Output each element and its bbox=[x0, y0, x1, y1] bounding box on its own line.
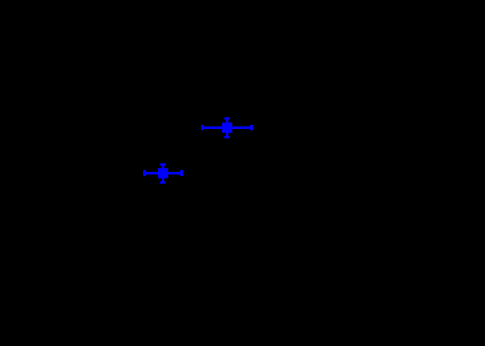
data point 1: square marker bbox=[222, 123, 232, 133]
data point 2: x error right cap bbox=[180, 170, 183, 176]
data point 1: x error bar line bbox=[202, 126, 253, 129]
data point 2: x error bar line bbox=[144, 172, 183, 175]
data point 2: y error bar stem bbox=[162, 164, 164, 184]
data point 1: x error left cap bbox=[201, 125, 204, 130]
data point 1: y error top cap bbox=[224, 117, 230, 119]
data point 2: square marker bbox=[158, 168, 168, 178]
data point 2: y error bottom cap bbox=[160, 181, 166, 183]
data point 1: y error bottom cap bbox=[224, 136, 230, 138]
data point 1: y error bar stem bbox=[226, 118, 228, 139]
data point 2: y error top cap bbox=[160, 163, 166, 165]
data point 2: x error left cap bbox=[143, 170, 146, 176]
data point 1: x error right cap bbox=[250, 125, 253, 130]
